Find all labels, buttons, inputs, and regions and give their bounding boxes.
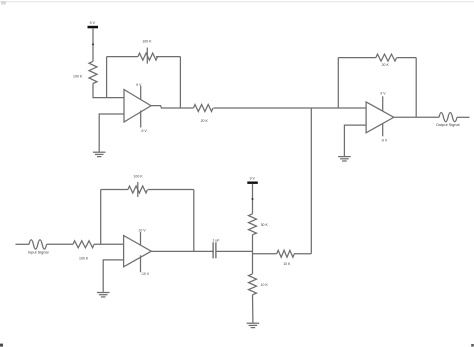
wire U2 non-inverting input to ground (103, 260, 123, 292)
capacitor C1 1 uF (213, 242, 216, 258)
svg-text:9 V: 9 V (380, 92, 386, 96)
source OUT1 Output Signal (439, 113, 457, 122)
wire R1 bottom to U1 inverting input (93, 84, 124, 98)
svg-text:9 V: 9 V (250, 177, 256, 181)
wire U3 feedback top right lead (397, 57, 416, 59)
ground G4 (338, 157, 351, 161)
wire C1 to bias node (216, 250, 253, 252)
pin U3 V+ (382, 96, 384, 111)
svg-text:Input Signal: Input Signal (28, 250, 49, 255)
svg-text:1 uF: 1 uF (212, 238, 219, 242)
svg-text:9 V: 9 V (90, 21, 96, 25)
wire R4 to U2 inverting input (94, 243, 124, 245)
resistor R1 100 K (vertical) (89, 61, 97, 83)
wire U3 output (394, 116, 439, 118)
svg-text:20 K: 20 K (201, 119, 209, 123)
wire U2 feedback left vertical (100, 190, 102, 245)
pin U2 V+ (140, 232, 142, 246)
wire U1 output jog (151, 106, 194, 108)
wire U2 feedback top right lead (148, 189, 194, 191)
pin U3 V- (382, 123, 384, 136)
resistor R5 100 K (feedback, with center tap line) (128, 182, 148, 197)
wire input lead (16, 243, 30, 245)
svg-text:-9 V: -9 V (381, 138, 388, 142)
wire bias node to R7 (253, 253, 277, 255)
wire R7 to bias vertical riser (294, 253, 311, 255)
svg-text:100 K: 100 K (142, 40, 152, 44)
op-amp U1 (124, 90, 151, 123)
wire bias node vertical (252, 235, 254, 274)
svg-text:20 K: 20 K (382, 63, 390, 67)
wire U2 feedback right vertical to output (193, 190, 195, 252)
resistor R4 100 K (73, 241, 94, 248)
op-amp U2 (124, 236, 152, 267)
ground G5 (247, 323, 260, 327)
svg-text:30 K: 30 K (261, 223, 269, 227)
source SIG1 Input Signal (29, 240, 47, 249)
wire U2 feedback top left lead (101, 189, 128, 191)
wire OUT1 right lead (457, 116, 470, 118)
wire R8 to ground (252, 295, 254, 323)
power supply V2 9 V (247, 182, 257, 214)
svg-text:10 V: 10 V (138, 229, 146, 233)
resistor R9 20 K (feedback) (376, 54, 397, 61)
ground G2 (97, 293, 110, 297)
pin U2 V- (140, 255, 142, 272)
resistor R2 100 K (feedback, with center tap line) (138, 48, 158, 64)
pin U1 V+ (140, 86, 142, 100)
wire U3 feedback right vertical to output (415, 58, 417, 118)
ground G1 (93, 152, 106, 156)
wire feedback left vertical (node A) (106, 57, 108, 98)
wire SIG1 to R4 (47, 243, 73, 245)
wire U2 output to C1 (151, 250, 213, 252)
svg-text:100 K: 100 K (73, 75, 83, 79)
wire U3 feedback top left lead (338, 57, 376, 59)
svg-text:100 K: 100 K (79, 257, 89, 261)
power supply V1 9 V (88, 26, 99, 62)
wire junction down to bias node (310, 108, 312, 254)
resistor R8 10 K (vertical) (249, 274, 257, 295)
resistor R6 30 K (vertical) (249, 214, 257, 235)
wire feedback right vertical to U1 output (179, 57, 181, 108)
wire U3 non-inverting input to ground (344, 125, 366, 156)
svg-text:10 K: 10 K (283, 262, 291, 266)
svg-text:Output Signal: Output Signal (436, 122, 460, 127)
wire U1 non-inverting input to ground (99, 114, 124, 152)
resistor R3 20 K (194, 105, 214, 112)
svg-text:9 V: 9 V (136, 83, 142, 87)
svg-text:10 K: 10 K (261, 283, 269, 287)
op-amp U3 (366, 102, 394, 133)
resistor R7 10 K (horizontal) (277, 250, 295, 257)
svg-text:-9 V: -9 V (140, 129, 147, 133)
wire feedback top right lead (156, 56, 180, 58)
pin U1 V- (140, 111, 142, 128)
svg-text:100 K: 100 K (133, 175, 143, 179)
wire feedback top left lead (107, 56, 138, 58)
wire R3 to U3 inverting input (214, 107, 367, 109)
wire U3 feedback left vertical (337, 58, 339, 108)
svg-text:-10 V: -10 V (141, 272, 150, 276)
